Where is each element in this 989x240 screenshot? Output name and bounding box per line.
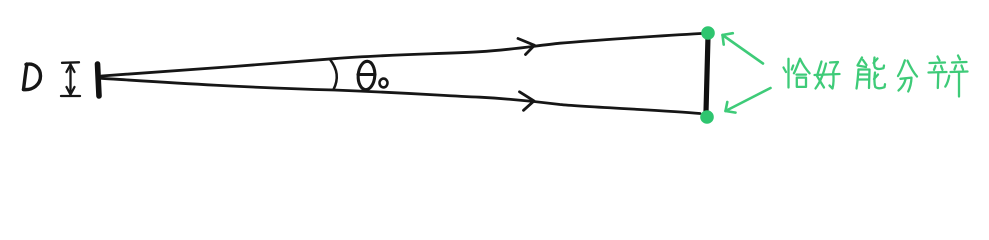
theta symbol [357, 61, 376, 90]
top ray [102, 34, 702, 77]
annotation char 辨 [929, 56, 968, 97]
annotation char 好 [815, 62, 840, 89]
green arrow to bottom dot [726, 88, 771, 113]
dimension arrow for D [61, 62, 80, 96]
angle arc [330, 60, 337, 90]
bottom ray arrowhead [520, 92, 535, 111]
annotation char 分 [898, 60, 917, 91]
annotation char 能 [857, 58, 886, 89]
label D [24, 64, 41, 90]
top ray arrowhead [518, 39, 535, 55]
green arrow to top dot [723, 33, 764, 63]
theta subscript o [380, 79, 388, 88]
aperture bar (lens) [98, 64, 100, 96]
screen bar (right) [706, 37, 708, 113]
top point source dot [701, 26, 715, 40]
annotation char 恰 [784, 59, 810, 88]
bottom point source dot [700, 110, 714, 124]
bottom ray [102, 78, 701, 113]
